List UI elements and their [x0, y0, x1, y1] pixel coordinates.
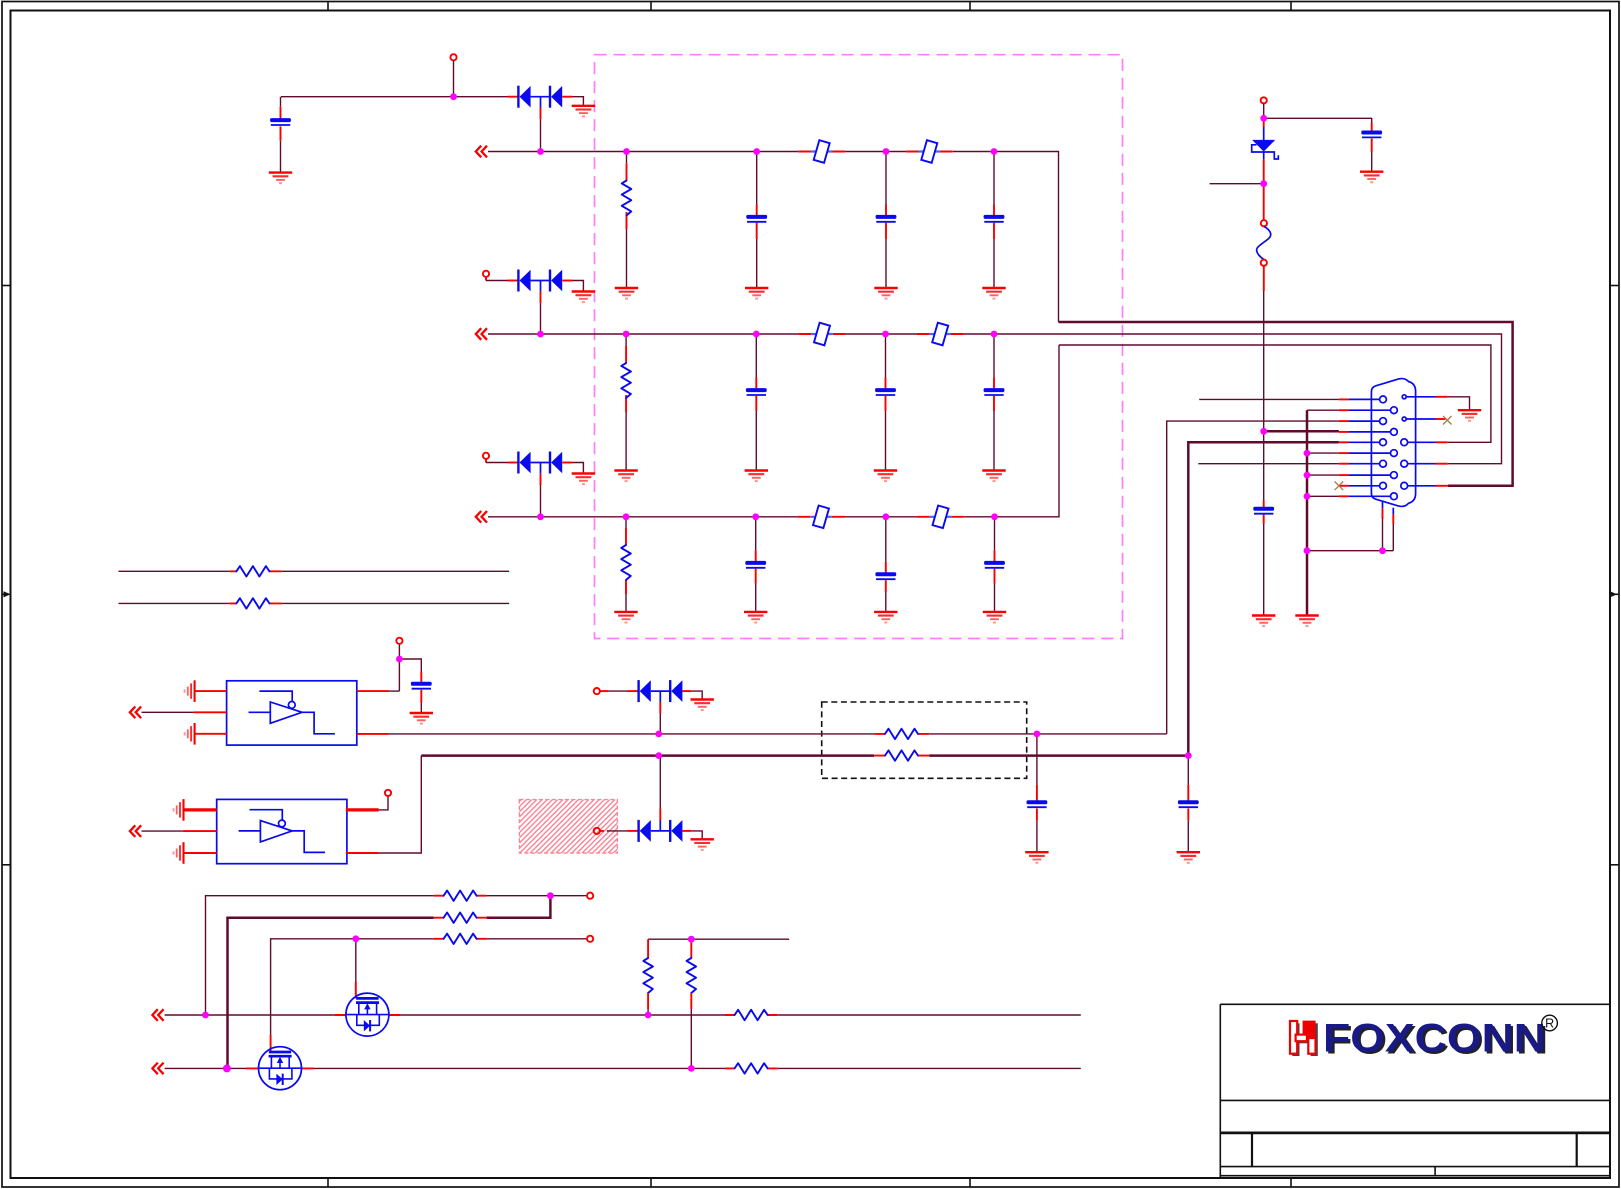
svg-text:R: R [1545, 1017, 1554, 1031]
svg-text:FOXCONN: FOXCONN [1323, 1017, 1546, 1061]
